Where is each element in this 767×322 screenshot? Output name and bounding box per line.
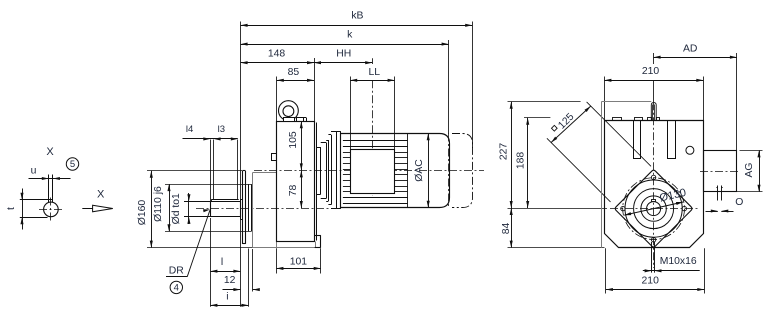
motor adapter rings (317, 123, 341, 241)
svg-text:84: 84 (501, 223, 512, 235)
dim DAC label (414, 159, 425, 182)
svg-text:101: 101 (290, 257, 308, 268)
dim HH label (336, 49, 351, 60)
dim AG label (744, 162, 755, 177)
terminal box (351, 150, 395, 194)
svg-text:4: 4 (174, 282, 179, 293)
extension line flange face (240, 22, 242, 307)
svg-text:X: X (46, 146, 54, 158)
svg-text:78: 78 (288, 185, 299, 197)
svg-text:ØAC: ØAC (414, 159, 425, 182)
extension line 188 top (524, 117, 550, 119)
dim kB label (351, 11, 363, 22)
dim O line (706, 209, 734, 212)
dim square125 line (550, 105, 592, 144)
spigot bottom extension line (165, 231, 252, 233)
dim 101 label (290, 257, 308, 268)
housing slot right (668, 121, 676, 159)
flange circle D130 (625, 180, 682, 237)
svg-text:LL: LL (369, 67, 381, 78)
svg-text:O: O (735, 197, 743, 208)
svg-text:AG: AG (744, 162, 755, 177)
dim 78 label (288, 185, 299, 197)
dim 188 line (526, 118, 529, 208)
extension line 227 top (508, 101, 581, 103)
dim Dd line (187, 193, 190, 224)
extension line motor end (448, 40, 450, 134)
dim 12 label (224, 275, 236, 286)
note DR label (166, 266, 187, 277)
flange recess circle (634, 189, 674, 229)
svg-text:k: k (347, 30, 353, 41)
front housing outline (253, 173, 321, 248)
dim D130 line (624, 200, 684, 216)
extension line 210 top left (604, 77, 606, 121)
motor cooling fins (343, 134, 408, 208)
svg-text:AD: AD (683, 44, 697, 55)
dim M10x16 line (643, 269, 700, 272)
extension line case left (276, 77, 278, 122)
keyway slot lines (49, 175, 53, 203)
dim k label (347, 30, 353, 41)
dim 78 line (300, 170, 303, 208)
dim D110 line (167, 184, 170, 231)
flange disk (242, 171, 245, 244)
balloon 4 (170, 281, 182, 293)
bolt circle dashdot (623, 178, 685, 240)
svg-text:X: X (97, 189, 105, 201)
flange top extension line (147, 170, 242, 172)
dim 105 label (288, 131, 299, 149)
extension line 210 bottom right (704, 248, 706, 293)
dim D160 line (150, 171, 153, 248)
svg-text:Ø160: Ø160 (137, 200, 148, 226)
case bottom lug (315, 235, 321, 247)
dim t line (20, 189, 23, 230)
note DR leader (187, 208, 210, 277)
terminal box centerline (372, 58, 374, 196)
bore centerline vertical (50, 198, 52, 222)
motor silhouette behind (602, 102, 652, 248)
svg-text:188: 188 (516, 152, 527, 170)
shaft bore circle front (647, 200, 661, 216)
svg-text:85: 85 (288, 67, 300, 78)
view arrow label X (97, 189, 105, 201)
dim 101 line (276, 267, 320, 270)
extension line square125 lower (547, 138, 611, 202)
keyway depth bottom line (20, 217, 48, 219)
extension line motor extended end (472, 22, 474, 149)
hub bore bottom line (184, 216, 240, 218)
housing top tab 2 (635, 118, 643, 121)
housing face hole (686, 146, 694, 154)
dim i line (210, 304, 248, 307)
dim Dd label (171, 193, 182, 224)
svg-text:DR: DR (169, 266, 185, 277)
flange hole bottom (651, 238, 655, 242)
dim 12 line (223, 288, 260, 291)
housing top tab 3 (648, 118, 652, 121)
hub barrel (210, 200, 240, 217)
svg-text:M10x16: M10x16 (660, 256, 697, 267)
front centerline extension left (508, 208, 608, 210)
motor short end hidden line (448, 134, 450, 208)
svg-text:210: 210 (642, 66, 660, 77)
svg-text:HH: HH (336, 49, 351, 60)
dim 84 line (510, 208, 513, 248)
dim k line (241, 43, 449, 46)
svg-text:Ø110 j6: Ø110 j6 (153, 186, 164, 222)
extension line 101 left (276, 248, 278, 273)
flange hole right (682, 206, 686, 210)
housing bottom extension line (147, 247, 256, 249)
eyebolt tab (651, 103, 656, 121)
dim D130 label (658, 187, 687, 205)
extension line AG bottom (734, 191, 763, 193)
extension line flange back (248, 249, 250, 307)
extension line terminal box left (350, 77, 352, 150)
flange hole top (651, 175, 655, 179)
dim 227 label (498, 143, 509, 161)
dim 188 label (516, 152, 527, 170)
svg-text:12: 12 (224, 275, 236, 286)
housing slot left (634, 121, 641, 159)
motor centerline (254, 170, 484, 172)
housing top tab 1 (613, 118, 622, 121)
dim LL label (369, 67, 381, 78)
dim t label (6, 207, 17, 210)
extension line motor adapter face (314, 58, 316, 145)
extension line key start (213, 140, 215, 200)
extension line hub left bottom (210, 218, 212, 307)
dim 210 top label (642, 66, 660, 77)
svg-text:Ød to1: Ød to1 (171, 193, 182, 224)
dim l4 label (186, 124, 193, 135)
dim square125 label (551, 111, 576, 131)
dim LL line (350, 79, 394, 82)
extension line terminal box right (394, 77, 396, 150)
hub collar (240, 199, 242, 220)
case side tab (272, 154, 277, 161)
svg-text:148: 148 (268, 49, 286, 60)
fan cowl box (704, 151, 737, 192)
dim AD line (654, 56, 737, 59)
extension line 101 right (320, 248, 322, 273)
eyebolt ring (279, 101, 299, 121)
spigot ring (249, 184, 252, 231)
dim u line (29, 177, 71, 180)
dim O label (735, 197, 743, 208)
shaft collar circle (641, 196, 666, 221)
dim 105 line (300, 121, 303, 170)
dim l3 label (218, 124, 225, 135)
eyebolt base (284, 118, 307, 122)
front housing outline (605, 121, 704, 248)
svg-text:l3: l3 (218, 124, 225, 135)
gear case body (277, 122, 315, 242)
extended motor dashed outline (452, 134, 473, 208)
dim 148 HH line (241, 61, 373, 64)
M10 tapped hole lines (652, 242, 655, 273)
svg-text:t: t (6, 207, 17, 210)
bore centerline horizontal (39, 209, 64, 211)
front view horizontal centerline (610, 208, 698, 210)
square output flange (615, 170, 692, 247)
balloon 5 (66, 158, 78, 170)
svg-text:u: u (31, 166, 37, 177)
svg-text:5: 5 (70, 159, 75, 170)
dim 227 line (510, 102, 513, 208)
dim 84 label (501, 223, 512, 235)
drain stub (716, 186, 723, 201)
dim D160 label (137, 200, 148, 226)
fan cowl centerline (700, 171, 739, 173)
extension line hub start (210, 140, 212, 202)
extension line AG top (740, 150, 763, 152)
dim DAC line (427, 133, 430, 208)
extension line AD left (653, 53, 655, 64)
extension line 84 bottom (508, 247, 605, 249)
svg-text:227: 227 (498, 143, 509, 161)
dim 210 bottom label (642, 276, 660, 287)
shaft bore circle (44, 202, 59, 217)
dim l line (210, 270, 240, 273)
section label X (46, 146, 54, 158)
dim u label (31, 166, 37, 177)
extension line 210 bottom left (605, 248, 607, 293)
extension line AD right (736, 53, 738, 150)
spigot top extension line (165, 184, 252, 186)
dim 210 top line (604, 79, 703, 82)
flange hole left (621, 206, 625, 210)
svg-text:210: 210 (642, 276, 660, 287)
front view vertical centerline (653, 80, 655, 268)
dim D110 label (153, 186, 164, 222)
dim l label (221, 257, 223, 268)
dim 85 line (277, 79, 314, 82)
dim AG line (757, 150, 760, 191)
svg-text:kB: kB (351, 11, 363, 22)
dim kB line (241, 24, 473, 27)
dim i label (226, 291, 228, 302)
extension line square125 upper (587, 102, 651, 166)
extension line 210 top right (703, 77, 705, 121)
housing top tab 4 (657, 118, 660, 121)
svg-text:l4: l4 (186, 124, 193, 135)
extension line key end (237, 140, 239, 200)
dim AD label (683, 44, 697, 55)
svg-text:l: l (221, 257, 223, 268)
dim 85 label (288, 67, 300, 78)
dim 148 label (268, 49, 286, 60)
view direction arrow (82, 205, 113, 212)
motor body outline (341, 134, 450, 208)
svg-text:i: i (226, 291, 228, 302)
hub bore top line (184, 200, 239, 202)
svg-text:105: 105 (288, 131, 299, 149)
keyway depth top line (20, 199, 53, 201)
extension line housing front (252, 249, 254, 292)
dim l4 l3 line (183, 137, 238, 140)
dim M10x16 label (660, 256, 697, 267)
dim 210 bottom line (606, 288, 704, 291)
output shaft centerline (196, 208, 332, 210)
